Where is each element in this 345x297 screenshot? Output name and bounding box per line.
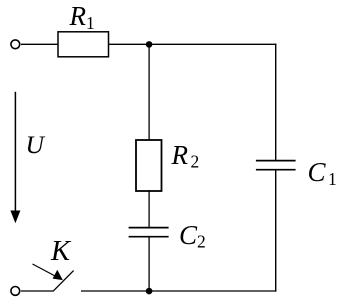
wire R2 to C2	[148, 191, 150, 228]
capacitor C1	[256, 161, 296, 170]
svg-text:1: 1	[328, 169, 337, 189]
switch actuation arrow	[33, 264, 63, 280]
node junction top	[146, 41, 153, 48]
wire right branch bottom	[275, 170, 277, 292]
svg-text:U: U	[26, 130, 46, 159]
svg-text:1: 1	[86, 13, 95, 33]
wire bottom	[81, 290, 276, 292]
terminal top-left	[11, 40, 20, 49]
wire C2 to bottom junction	[148, 237, 150, 291]
resistor R2	[136, 140, 162, 191]
svg-text:R: R	[171, 140, 189, 170]
svg-text:2: 2	[191, 152, 200, 172]
svg-text:C: C	[179, 220, 198, 250]
switch K blade	[53, 271, 74, 292]
svg-text:K: K	[50, 236, 72, 267]
voltage arrow U	[10, 92, 20, 224]
resistor R1	[58, 32, 109, 57]
wire input to R1	[21, 43, 58, 45]
node junction bottom	[146, 288, 153, 295]
wire right branch top	[275, 44, 277, 161]
wire R1 to top-right corner	[109, 43, 277, 45]
svg-text:2: 2	[197, 232, 206, 252]
terminal bottom-left	[11, 287, 20, 296]
wire terminal to switch	[21, 290, 53, 292]
wire junction down to R2	[148, 44, 150, 141]
capacitor C2	[129, 228, 169, 237]
svg-text:R: R	[69, 1, 87, 31]
svg-text:C: C	[308, 157, 327, 187]
